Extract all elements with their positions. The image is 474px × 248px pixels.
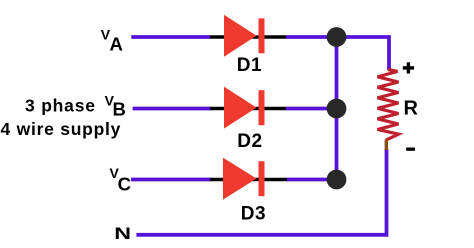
svg-text:N: N xyxy=(114,225,131,243)
svg-text:D1: D1 xyxy=(237,55,262,76)
svg-text:4 wire supply: 4 wire supply xyxy=(1,119,122,139)
svg-text:3 phase: 3 phase xyxy=(25,96,96,116)
svg-text:D2: D2 xyxy=(237,131,262,152)
svg-text:D3: D3 xyxy=(241,204,266,225)
svg-text:B: B xyxy=(113,98,126,119)
svg-text:A: A xyxy=(110,34,123,55)
svg-text:C: C xyxy=(118,174,131,195)
svg-text:R: R xyxy=(404,97,419,119)
